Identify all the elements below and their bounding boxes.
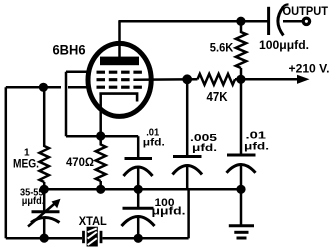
output label leader curl (282, 4, 289, 9)
svg-text:1: 1 (24, 148, 30, 159)
svg-text:MEG.: MEG. (13, 158, 39, 170)
node screen junction (182, 74, 192, 84)
capacitor C .005 (173, 155, 202, 158)
svg-text:+210 V.: +210 V. (289, 61, 330, 75)
wire riser to bus (187, 189, 190, 239)
node bus/1meg junction (40, 185, 49, 194)
svg-text:5.6K: 5.6K (210, 41, 234, 55)
g3 tie-down wire (vertical x66) (65, 72, 68, 136)
wire trimmer bottom lead (43, 219, 46, 238)
svg-text:μμfd.: μμfd. (152, 206, 186, 218)
tube V1 6BH6 envelope (88, 43, 151, 116)
node bus/470 junction (96, 185, 105, 194)
cathode lead wire (99, 94, 102, 137)
capacitor C output coupling left plate (267, 7, 270, 35)
wire bottom run right (103, 237, 189, 240)
node bus/ground junction (236, 185, 245, 194)
wire x187 column (186, 79, 189, 157)
cathode (99, 94, 137, 102)
svg-text:μfd.: μfd. (143, 138, 165, 149)
grid g2 row (middle dashes) (97, 78, 130, 81)
resistor R 5.6K (236, 21, 246, 79)
node 100pf/bottom junction (134, 234, 143, 243)
svg-text:6BH6: 6BH6 (53, 41, 86, 57)
capacitor C 35-55 trimmer plates (32, 210, 60, 213)
wire .01 right bottom lead (240, 166, 243, 190)
node trimmer/bottom junction (40, 234, 49, 243)
svg-text:100μμfd.: 100μμfd. (259, 38, 309, 52)
B+ arrowhead (297, 75, 310, 84)
crystal XTAL body (87, 227, 98, 247)
g1 lead wire y87 with hop gap (6, 86, 90, 89)
wire bottom run left (6, 237, 82, 240)
wire 100uufd bottom lead (137, 218, 140, 239)
capacitor C .01 left (125, 157, 153, 160)
svg-text:μμfd.: μμfd. (22, 195, 45, 207)
grid g3 row (top dashes) (97, 71, 142, 74)
wire x241 column (rail to cap) (240, 79, 243, 155)
resistor R 1 MEG (39, 87, 49, 189)
wire cap .01 left top lead (137, 136, 140, 158)
node B+ junction (236, 75, 245, 84)
crystal XTAL right plate (100, 231, 103, 243)
wire screen rail (133, 78, 300, 81)
capacitor C output curved plate (278, 7, 284, 35)
g3 lead wire (left top) (66, 71, 90, 74)
svg-text:47K: 47K (207, 90, 228, 104)
wire top plate run (118, 20, 267, 23)
resistor R 47K (198, 74, 236, 85)
wire left edge column (5, 87, 8, 238)
plate lead wire (118, 21, 121, 57)
svg-text:.01: .01 (246, 131, 267, 142)
svg-text:470Ω: 470Ω (66, 155, 94, 169)
wire output stub (283, 20, 303, 23)
node grid junction (39, 83, 48, 92)
svg-text:OUTPUT: OUTPUT (283, 4, 329, 18)
node plate/output junction (236, 17, 245, 26)
wire ground lead (240, 189, 243, 225)
capacitor C 35-55 trimmer top lead (43, 189, 46, 211)
crystal XTAL left plate (82, 231, 85, 243)
node cathode junction (96, 131, 105, 140)
svg-text:μfd.: μfd. (192, 143, 217, 154)
capacitor C .01 right (227, 154, 256, 157)
ground (229, 226, 254, 238)
capacitor C 100uufd plates (123, 207, 154, 210)
svg-text:μfd.: μfd. (244, 141, 269, 152)
wire .01 left bottom lead (137, 169, 140, 190)
wire .005 bottom lead (186, 167, 189, 190)
tube plate (anode) (100, 57, 139, 66)
svg-text:XTAL: XTAL (79, 216, 107, 228)
grid g1 row (bottom dashes) (97, 86, 142, 89)
output terminal (303, 18, 309, 24)
trimmer arrow (28, 202, 57, 227)
capacitor C 100uufd top lead (137, 189, 140, 208)
resistor R 470 ohm (96, 136, 106, 189)
wire cathode node run (66, 135, 138, 138)
wire ground bus (44, 188, 241, 191)
crystal hatch (88, 228, 97, 245)
node bus/caps junction (134, 185, 143, 194)
